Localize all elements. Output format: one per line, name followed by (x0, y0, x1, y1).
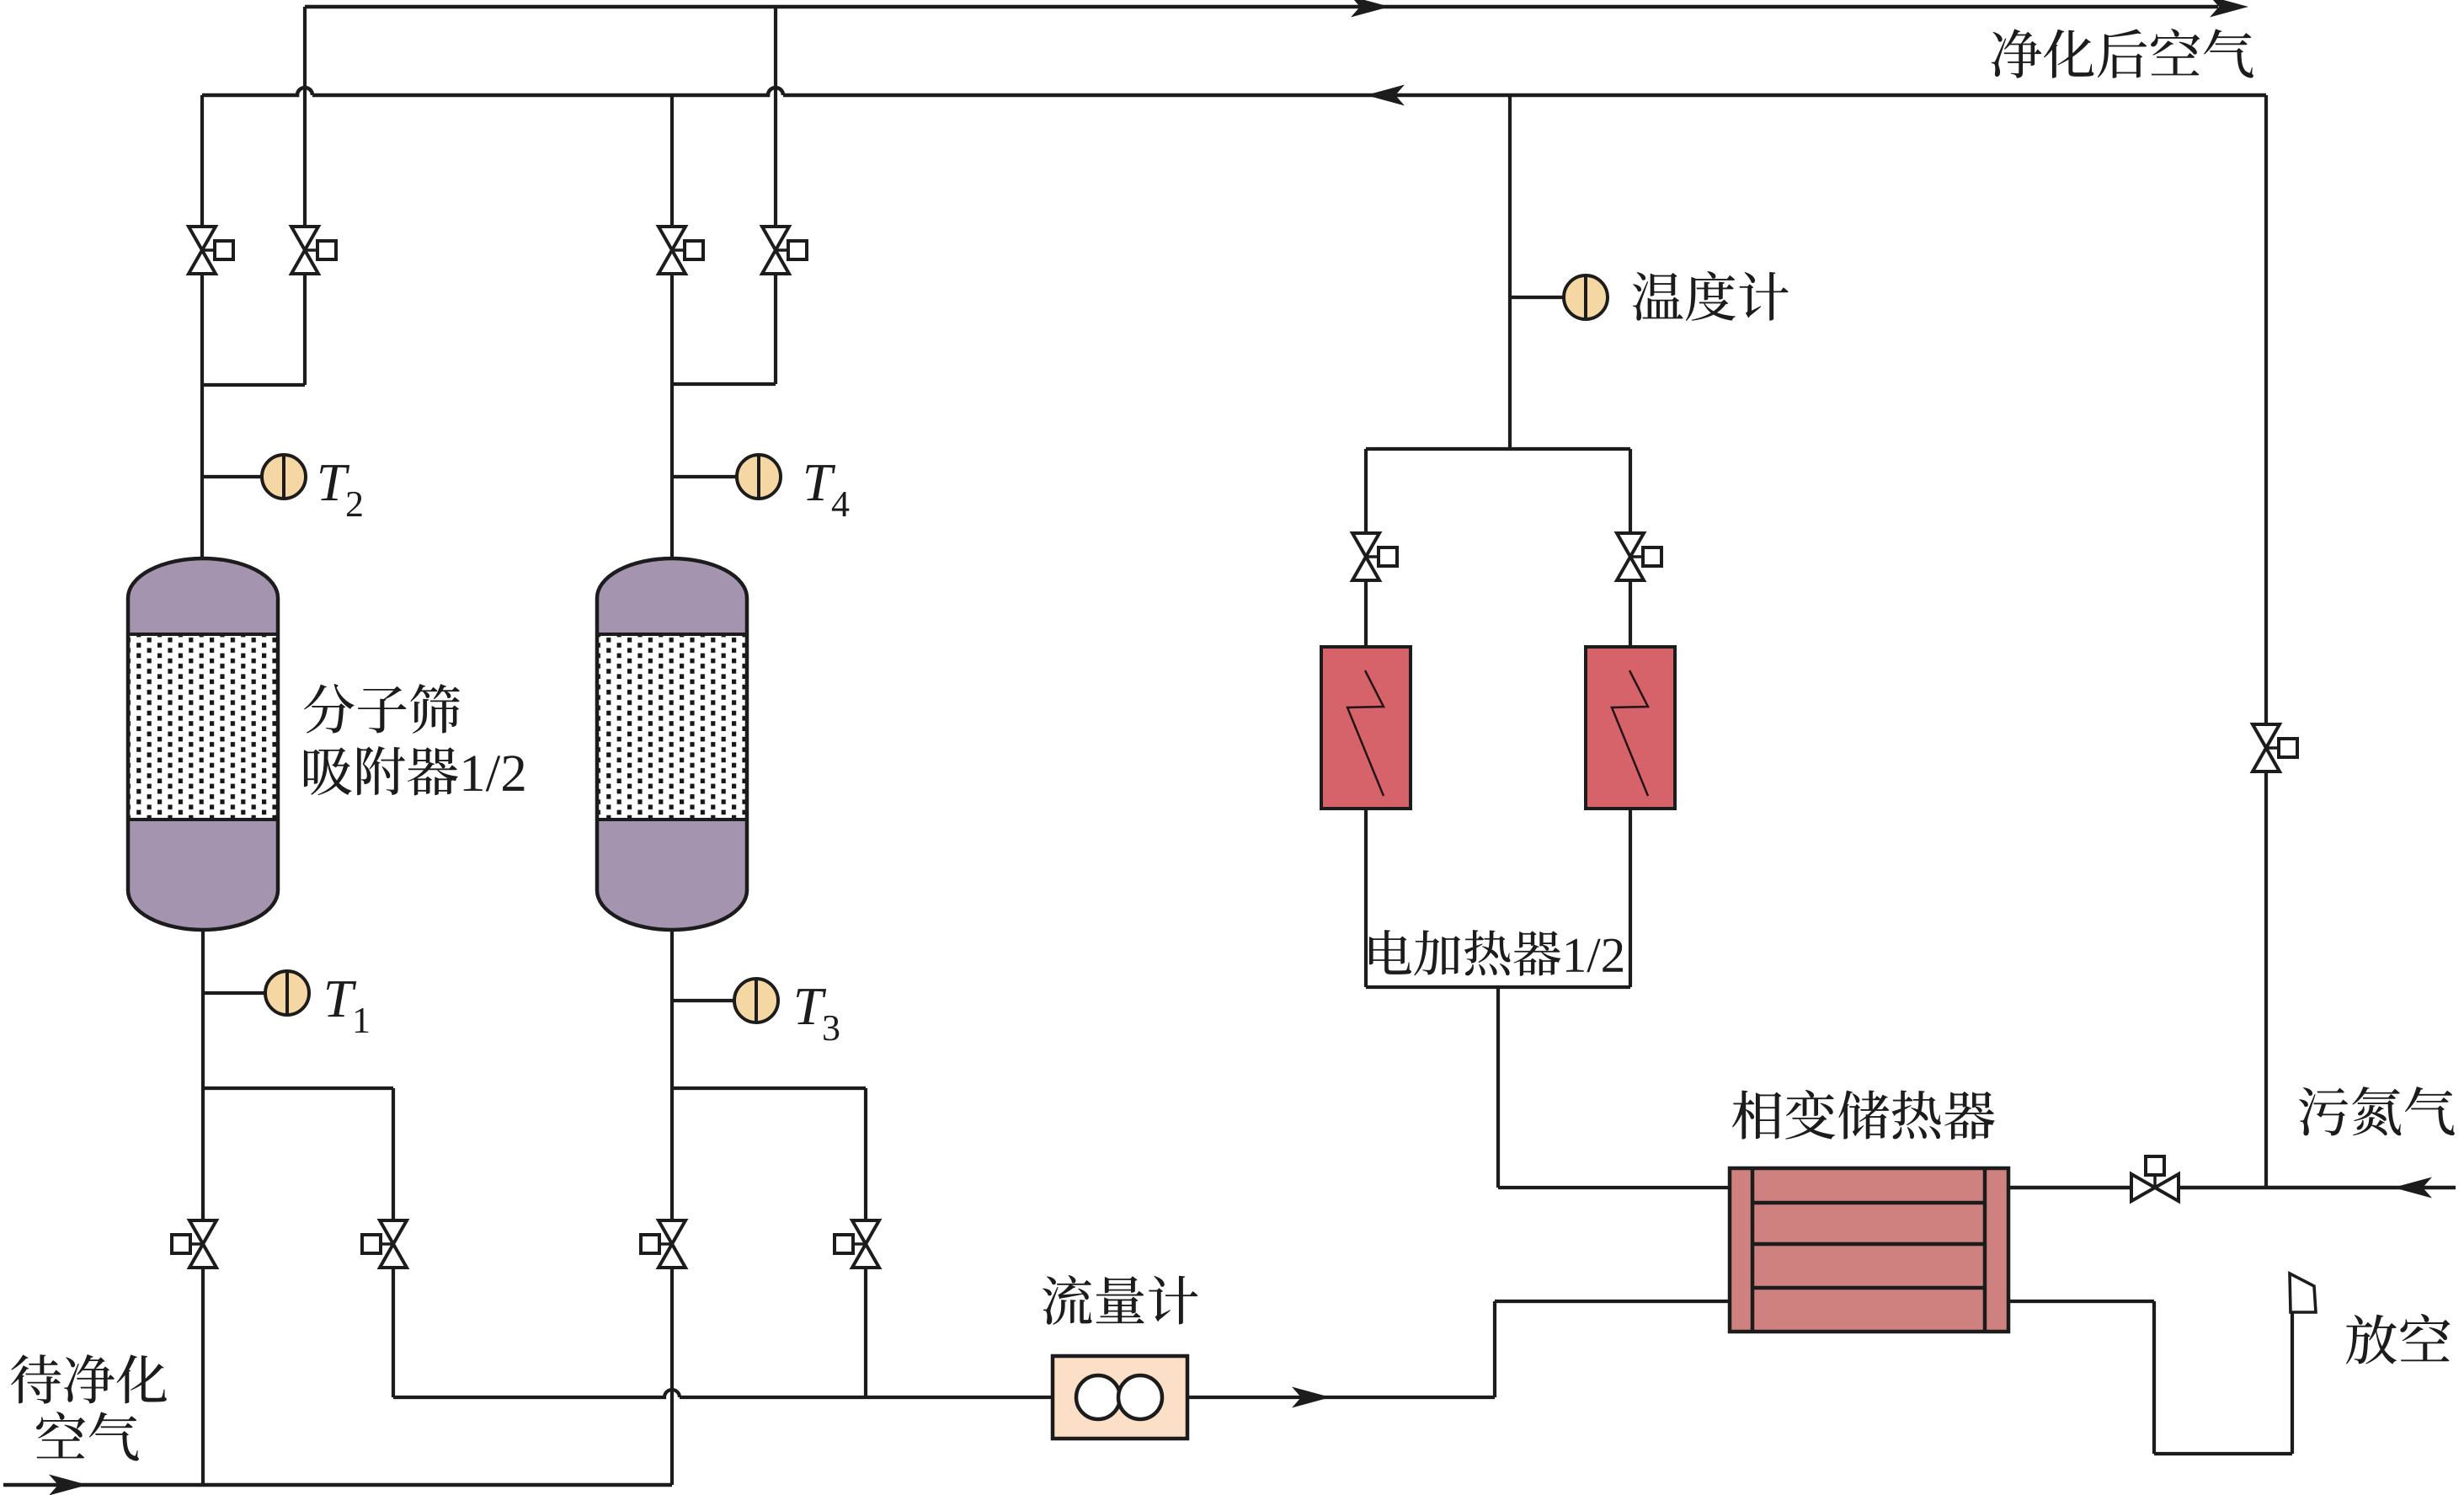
label 温度计 (1633, 271, 1789, 321)
vessel: molecular sieve adsorber 1 (128, 558, 278, 930)
arrow on waste nitrogen line pointing left (2393, 1177, 2432, 1199)
label 流量计 (1043, 1275, 1197, 1325)
valve V1 (adsorber 1 top, to return header) (189, 227, 233, 274)
valve V11 (far right leg) (2253, 724, 2297, 772)
label 放空 (2346, 1314, 2451, 1364)
label 污氮气 (2299, 1087, 2455, 1135)
valve V12 (waste nitrogen inlet) (2131, 1156, 2179, 1201)
wire: adsorber-2 bottom drop (x=798) (670, 929, 674, 1485)
temperature sensor T3 (734, 979, 778, 1022)
valve V8 (adsorber 2 regeneration) (835, 1220, 879, 1268)
wire: purified-air return header (second line) with hops over two risers (202, 88, 2266, 95)
wire: adsorber-1 bottom drop (x=241) (201, 929, 205, 1485)
temperature sensor T1 (265, 971, 309, 1015)
label T4 (806, 465, 849, 516)
thermometer sensor (1564, 275, 1608, 319)
label 吸附器1/2 (304, 746, 524, 795)
arrow on flow meter outlet (1292, 1387, 1331, 1408)
wire: top manifold joining the two risers above adsorber 1 (200, 383, 305, 387)
wire: heater 2 branch lower (1629, 809, 1632, 987)
label 电加热器1/2 (1369, 930, 1623, 976)
valve V4 (adsorber 2 top, to outlet header) (762, 227, 807, 274)
wire: adsorber-2 riser to return header (x=798) (670, 95, 674, 558)
arrow on feed air line (49, 1475, 88, 1495)
wire: purified air down-leg on far right (x=2691) (2264, 95, 2268, 1188)
valve V7 (adsorber 2 bottom feed) (641, 1220, 685, 1268)
wire: heater bottom manifold (1366, 985, 1630, 989)
wire: heater 1 branch upper (1364, 449, 1368, 647)
wire: feed air line (bottom) (3, 1483, 672, 1487)
label 分子筛 (304, 684, 460, 734)
temperature sensor T1 branch wire (203, 991, 267, 995)
wire: adsorber-1 riser to outlet header (x=362) (303, 7, 307, 385)
temperature sensor T2 (262, 455, 306, 499)
wire: adsorber-2 riser to outlet header (x=921) (774, 7, 777, 384)
wire: riser from return header to heater manifold (x=1793) (1508, 95, 1512, 449)
electric heater 1 (1321, 647, 1411, 809)
label 待净化 (11, 1354, 167, 1404)
temperature sensor T3 branch wire (672, 999, 736, 1002)
wire: vent line from phase-change store bottom (2008, 1277, 2292, 1454)
wire: heater outlet down to phase-change store top (1498, 987, 1731, 1188)
wire: adsorber-1 riser to return header (x=240) (200, 95, 204, 558)
wire: top manifold joining the two risers above adsorber 2 (670, 382, 776, 386)
valve V6 (adsorber 1 regeneration) (362, 1220, 407, 1268)
label 相变储热器 (1732, 1090, 1995, 1140)
wire: regeneration gas line to flow meter, hop over adsorber-2 drop (393, 1390, 1053, 1397)
wire: heater 1 branch lower (1364, 809, 1368, 987)
temperature sensor T2 branch wire (202, 475, 264, 478)
temperature sensor T4 branch wire (672, 475, 739, 478)
wire: heater top manifold (1366, 447, 1630, 451)
phase-change heat store (1730, 1168, 2008, 1332)
valve V2 (adsorber 1 top, to outlet header) (291, 227, 336, 274)
label T3 (797, 989, 839, 1040)
wire: heater 2 branch upper (1629, 449, 1632, 647)
valve V5 (adsorber 1 bottom feed) (172, 1220, 216, 1268)
thermometer branch wire (1510, 296, 1565, 299)
wire: flow meter outlet to phase-change store bottom (1187, 1301, 1731, 1397)
wire: adsorber-2 regeneration branch (672, 1088, 866, 1397)
flow meter body (1053, 1356, 1187, 1439)
arrow at purified-air outlet end (2210, 0, 2248, 18)
wire: adsorber-1 regeneration branch (203, 1088, 393, 1397)
valve V3 (adsorber 2 top, to return header) (659, 227, 703, 274)
wire: waste nitrogen line (right) (2008, 1186, 2456, 1189)
label T2 (320, 465, 362, 516)
label 空气 (feed) (36, 1412, 139, 1460)
temperature sensor T4 (737, 455, 781, 499)
arrow on purified-air outlet (middle) (1351, 0, 1389, 18)
label 净化后空气 (1992, 29, 2253, 78)
valve V10 (heater 2 inlet) (1617, 533, 1661, 580)
wire: purified-air outlet header (top line) (305, 5, 2218, 9)
vessel: molecular sieve adsorber 2 (597, 558, 747, 930)
arrow on return header pointing left (1366, 85, 1405, 106)
electric heater 2 (1586, 647, 1675, 809)
label T1 (327, 981, 368, 1033)
vent flag symbol (2290, 1273, 2316, 1312)
valve V9 (heater 1 inlet) (1352, 533, 1397, 580)
